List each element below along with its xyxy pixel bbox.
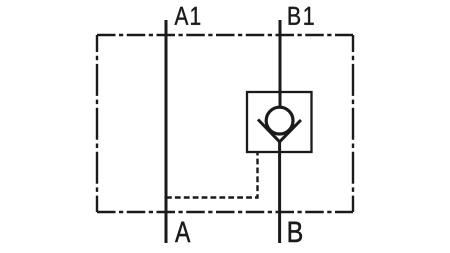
enclosure boundary bottom (dash-dot) [97,211,353,213]
wire port line A1-A [165,20,168,243]
label A1 letter A [175,7,189,25]
enclosure boundary left (dash-dot) [96,35,98,212]
label B (port) [289,222,302,242]
pilot line (dashed) from A line to valve [166,153,258,198]
check valve body box [247,92,312,152]
enclosure boundary top (dash-dot) [97,34,353,36]
label A1 digit 1 [191,7,200,25]
wire port line B lower segment [278,141,281,243]
check valve seat (V) [258,120,301,142]
wire port line B1 upper segment [279,20,282,107]
enclosure boundary right (dash-dot) [352,35,354,212]
label B1 letter B [289,7,300,25]
label B1 digit 1 [304,7,313,25]
check valve ball [266,107,293,134]
label A (port) [175,222,190,242]
